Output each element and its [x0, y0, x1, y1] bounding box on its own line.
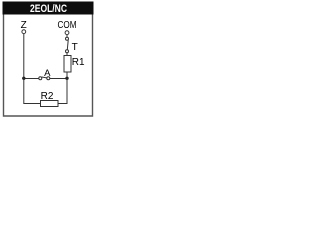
svg-text:R1: R1: [72, 57, 85, 68]
svg-text:2EOL/NC: 2EOL/NC: [30, 3, 67, 15]
wire Z down to node A-left: [23, 34, 25, 78]
wire R2 to right rail up to node A-right: [58, 79, 67, 104]
svg-text:COM: COM: [58, 20, 77, 31]
resistor R1: [64, 56, 71, 73]
wire switch A to node A-right: [50, 78, 67, 80]
switch T (tamper): [66, 37, 69, 53]
svg-text:T: T: [72, 42, 78, 53]
wire tamper to R1: [66, 53, 68, 56]
node junction left: [22, 77, 25, 80]
wire node A-left to switch A: [24, 78, 39, 80]
wire left rail down to R2 branch: [24, 79, 41, 104]
terminal COM: [65, 31, 69, 35]
resistor R2: [41, 101, 59, 107]
node junction right: [65, 77, 68, 80]
switch A (alarm contact): [39, 77, 50, 80]
wire COM to tamper switch: [66, 35, 68, 37]
wire R1 to node A-right: [66, 72, 68, 79]
svg-text:R2: R2: [41, 91, 54, 102]
terminal Z: [22, 30, 26, 34]
header bar with title 2EOL/NC: [3, 2, 94, 15]
frame border: [4, 15, 93, 117]
svg-text:A: A: [44, 68, 51, 79]
